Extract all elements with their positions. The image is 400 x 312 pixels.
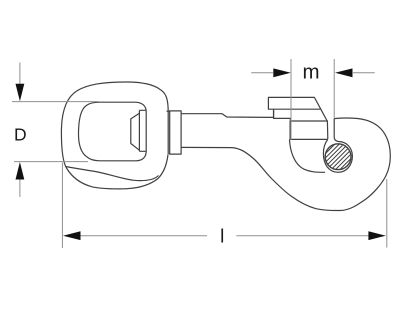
swivel stem tapered flange	[131, 113, 140, 150]
m left extension line	[290, 59, 292, 140]
swivel eye inner opening	[79, 102, 147, 161]
hook belly inner contour	[290, 139, 326, 172]
svg-text:D: D	[14, 125, 27, 145]
shank bottom and hook outer contour	[181, 118, 390, 211]
pin cross-section circle	[325, 144, 351, 170]
m left arrowhead	[273, 68, 291, 77]
D top reference line	[12, 101, 99, 103]
m right arrow tail	[353, 72, 375, 74]
latch block	[290, 121, 328, 139]
m right extension line	[333, 59, 335, 118]
D top arrow tail	[19, 63, 21, 86]
l right extension line	[386, 179, 388, 248]
shank top edge	[181, 109, 273, 117]
dimension and extension lines (gray)	[12, 59, 387, 248]
m right arrowhead	[335, 68, 353, 77]
slider band	[274, 109, 328, 121]
swivel eye outer contour	[61, 82, 168, 189]
svg-text:l: l	[220, 226, 224, 247]
hook nose ring around pin	[323, 119, 352, 173]
l right arrowhead	[368, 231, 386, 240]
slider knob cap	[268, 97, 320, 109]
svg-text:m: m	[302, 60, 319, 83]
l left arrowhead	[63, 231, 81, 240]
D bottom arrow tail	[19, 179, 21, 197]
arrows (black)	[16, 68, 386, 240]
D bottom arrowhead	[16, 162, 25, 180]
flange front face line	[138, 110, 140, 151]
eye boss curve	[66, 167, 159, 181]
barrel top tick behind ring	[167, 110, 170, 112]
l dimension line right segment	[236, 235, 370, 237]
collar flange	[170, 111, 181, 154]
pin hatching	[295, 137, 372, 175]
latch block bottom	[290, 138, 328, 140]
D bottom reference line	[14, 161, 88, 163]
D top arrowhead	[16, 84, 25, 102]
l dimension line left segment	[79, 235, 207, 237]
swivel stem flange end face steps	[139, 110, 146, 151]
l left extension line	[61, 163, 63, 249]
m left arrow tail	[251, 72, 273, 74]
